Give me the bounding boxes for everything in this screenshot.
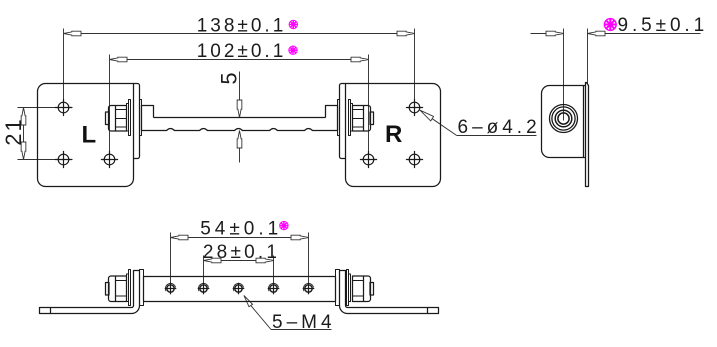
svg-text:21: 21: [1, 117, 26, 145]
svg-text:28±0.1: 28±0.1: [203, 242, 280, 263]
svg-text:5–M4: 5–M4: [272, 312, 336, 333]
svg-text:5: 5: [216, 70, 241, 84]
svg-text:138±0.1: 138±0.1: [197, 15, 287, 36]
svg-text:6–ø4.2: 6–ø4.2: [458, 117, 541, 138]
svg-text:102±0.1: 102±0.1: [197, 41, 287, 62]
svg-text:R: R: [385, 121, 402, 148]
svg-text:54±0.1: 54±0.1: [200, 219, 282, 240]
svg-text:L: L: [82, 121, 97, 148]
svg-text:9.5±0.1: 9.5±0.1: [618, 15, 709, 36]
